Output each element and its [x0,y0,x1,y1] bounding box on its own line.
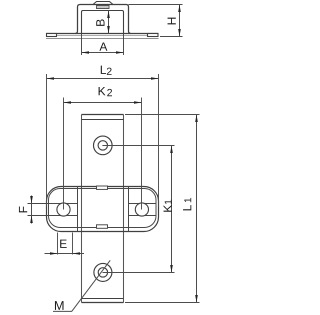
dimension K1 [170,146,173,273]
left slot hole [57,203,70,216]
bump slot rect [97,6,110,9]
bridge inner profile [82,11,124,34]
strap right edge [123,115,125,303]
dimension E [45,233,85,255]
text L1 main [183,205,191,210]
dimension K2 [64,98,142,210]
bottom hole center ext line [103,272,175,274]
strap bottom edge double line [82,299,124,303]
dimension H [129,5,183,37]
text M [55,301,64,310]
right slot hole [135,203,148,216]
text L1 sub [184,198,191,202]
text K2 sub [107,89,112,96]
text K1 main [164,205,172,212]
bridge outer profile [75,5,131,34]
top hole [94,136,113,155]
text K2 main [99,87,106,95]
plate groove lines right tab [129,204,156,216]
text A [99,42,107,50]
dimension F [30,196,33,224]
plate edge-on grey mid band [57,35,148,37]
plate groove lines left tab [28,204,78,216]
text K1 sub [165,200,172,204]
plate bottom tab rect [97,225,108,229]
dimension L1 [125,115,200,303]
strap left edge [81,115,83,303]
plate edge-on top line [46,33,159,35]
plate edge-on bottom grey line [46,38,159,40]
bottom hole [94,263,112,281]
text L2 main [101,66,106,74]
text E [60,240,67,248]
top bump tab [93,2,113,5]
dimension A [82,34,124,55]
dimension B [107,11,110,34]
dimension L2 [47,74,159,207]
right foot rect [148,34,159,37]
text F [19,206,27,212]
plate outline [47,187,159,232]
bridge wall line left across plate [77,187,79,232]
plate inner offset outline [49,189,157,228]
top hole center ext line [102,145,174,147]
left foot rect [47,34,57,37]
text L2 sub [107,68,112,75]
text B [96,19,104,25]
thread callout M leader [53,260,110,311]
strap top edge double line [82,115,124,120]
text H [168,18,176,25]
bridge wall line right across plate [128,187,130,232]
plate top tab rect [97,186,108,189]
